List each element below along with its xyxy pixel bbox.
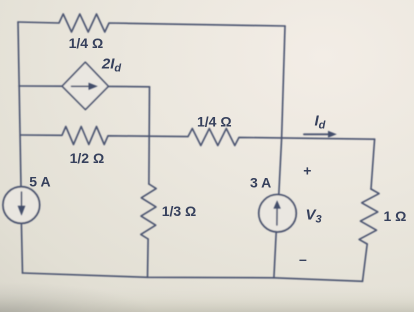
svg-text:5 A: 5 A	[29, 173, 50, 189]
current source I2 3A circle	[259, 195, 296, 232]
wire mid vertical upper	[148, 87, 151, 184]
resistor R 1/3 ohm vertical	[141, 184, 156, 239]
dependent source U1 diamond 2Id	[62, 62, 108, 109]
arrowhead 3A up	[273, 200, 280, 208]
svg-text:1/4 Ω: 1/4 Ω	[69, 35, 104, 51]
arrow in 3A source	[276, 206, 278, 225]
wire mid vertical lower	[147, 239, 150, 277]
svg-text:1/3 Ω: 1/3 Ω	[162, 203, 197, 219]
arrow in diamond	[72, 85, 92, 87]
wire 3A branch lower	[274, 232, 276, 278]
wire diamond left lead	[19, 85, 62, 87]
svg-text:–: –	[299, 251, 307, 267]
svg-text:3 A: 3 A	[250, 175, 271, 191]
arrow Id annotation	[304, 133, 329, 135]
wire bottom horizontal	[23, 273, 363, 281]
wire diamond right lead	[108, 85, 149, 87]
current source I1 5A circle	[3, 187, 40, 224]
wire top with resistor R 1/4 ohm	[18, 14, 285, 32]
svg-text:1/2 Ω: 1/2 Ω	[70, 150, 105, 166]
wire left vertical lower	[21, 223, 22, 273]
arrow in 5A source	[21, 192, 23, 209]
wire right vertical lower	[363, 244, 368, 281]
arrowhead diamond right	[89, 83, 98, 90]
wire middle horizontal with resistors 1/2 and 1/4 ohm	[21, 127, 375, 146]
wire 3A branch upper	[279, 26, 285, 195]
wire right vertical upper	[371, 139, 375, 189]
arrowhead Id right	[328, 131, 337, 138]
svg-text:+: +	[303, 162, 311, 178]
wire left vertical upper	[18, 22, 21, 187]
arrowhead 5A down	[18, 206, 26, 216]
svg-text:1/4 Ω: 1/4 Ω	[197, 114, 232, 130]
resistor R 1 ohm vertical	[359, 189, 379, 244]
svg-text:1 Ω: 1 Ω	[384, 208, 407, 224]
